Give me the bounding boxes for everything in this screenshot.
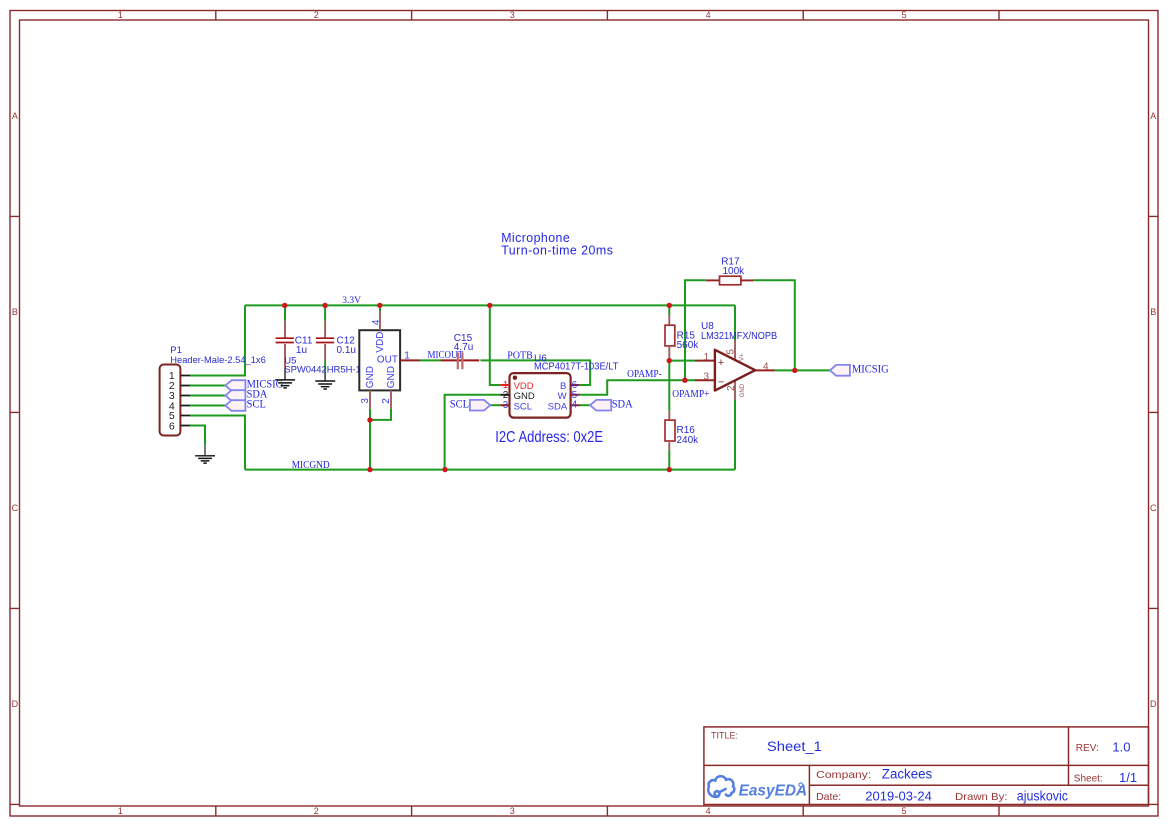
svg-text:TITLE:: TITLE:	[711, 730, 738, 740]
svg-text:1: 1	[118, 806, 123, 816]
net flag SCL at U6	[450, 396, 490, 410]
svg-text:I2C Address: 0x2E: I2C Address: 0x2E	[495, 429, 603, 446]
svg-text:B: B	[12, 307, 18, 317]
svg-text:Turn-on-time 20ms: Turn-on-time 20ms	[501, 243, 613, 257]
wire R15-R16 middle	[668, 361, 670, 411]
svg-text:MCP4017T-103E/LT: MCP4017T-103E/LT	[534, 362, 619, 373]
svg-text:3: 3	[360, 398, 371, 404]
svg-text:GND: GND	[365, 366, 376, 388]
resistor R17	[706, 257, 753, 285]
resistor R15	[665, 316, 699, 361]
wire U8 output to MICSIG	[775, 369, 831, 371]
svg-text:SCL: SCL	[514, 401, 532, 412]
wire R17 left leg	[685, 280, 706, 380]
svg-text:0.1u: 0.1u	[337, 345, 356, 356]
svg-text:Date:: Date:	[816, 791, 841, 803]
svg-text:OPAMP-: OPAMP-	[627, 369, 662, 380]
svg-text:2: 2	[381, 398, 392, 404]
wire MICGND rail	[245, 469, 735, 471]
svg-text:SCL: SCL	[247, 397, 266, 411]
svg-text:SDA: SDA	[548, 401, 568, 412]
svg-text:OUT: OUT	[377, 355, 398, 366]
digital pot U6	[500, 353, 618, 417]
svg-text:2: 2	[314, 806, 319, 816]
net flag MICSIG at P1	[225, 376, 283, 390]
wire SCL flag to U6	[490, 404, 500, 406]
svg-text:1u: 1u	[296, 345, 307, 356]
capacitor C15	[441, 333, 480, 369]
svg-text:−: −	[718, 376, 724, 388]
junction dots	[282, 303, 798, 473]
svg-text:V+: V+	[740, 353, 746, 361]
wire U6 GND to MICGND	[445, 395, 501, 470]
svg-text:100k: 100k	[723, 266, 746, 277]
svg-text:C: C	[12, 503, 19, 513]
svg-text:560k: 560k	[677, 340, 700, 351]
svg-text:Header-Male-2.54_1x6: Header-Male-2.54_1x6	[170, 355, 265, 366]
svg-text:VDD: VDD	[375, 332, 386, 353]
svg-text:A: A	[12, 111, 18, 121]
resistor R16	[665, 411, 699, 450]
svg-text:4: 4	[572, 400, 578, 411]
svg-text:1: 1	[703, 352, 709, 363]
svg-text:B: B	[1150, 307, 1156, 317]
net flag MICSIG output	[830, 364, 889, 376]
svg-text:EasyEDA: EasyEDA	[739, 783, 808, 800]
wire U5 GND pin3 down	[369, 409, 371, 470]
svg-text:ajuskovic: ajuskovic	[1017, 789, 1068, 804]
svg-text:3: 3	[503, 400, 509, 411]
svg-text:+: +	[718, 357, 724, 369]
svg-text:SCL: SCL	[450, 396, 469, 410]
svg-text:240k: 240k	[677, 435, 700, 446]
wire P1 pin4	[190, 405, 225, 407]
svg-text:MICSIG: MICSIG	[852, 364, 889, 376]
wire C12 top	[324, 305, 326, 320]
ground symbol at C12	[315, 371, 335, 389]
svg-text:MICGND: MICGND	[292, 460, 330, 471]
svg-text:REV:: REV:	[1076, 743, 1099, 754]
note text Microphone	[501, 231, 613, 257]
net flag SDA at P1	[225, 387, 267, 401]
svg-text:SDA: SDA	[612, 397, 633, 411]
EasyEDA logo	[708, 776, 734, 797]
wire R17 right leg	[753, 280, 795, 370]
svg-text:A: A	[1150, 111, 1156, 121]
svg-text:4: 4	[706, 806, 711, 816]
wire U6 SDA to flag	[580, 404, 590, 406]
svg-text:4: 4	[371, 319, 382, 325]
svg-text:2: 2	[726, 385, 737, 391]
svg-text:SPW0442HR5H-1: SPW0442HR5H-1	[284, 364, 361, 375]
wire U8 V+ drop	[734, 305, 736, 340]
capacitor C11	[276, 321, 313, 369]
svg-text:C: C	[1150, 503, 1157, 513]
wire P1 pin3	[190, 395, 225, 397]
svg-text:Zackees: Zackees	[882, 767, 933, 782]
svg-text:OPAMP+: OPAMP+	[672, 389, 710, 400]
svg-text:Sheet:: Sheet:	[1074, 774, 1103, 785]
net flag SCL at P1	[225, 397, 266, 411]
svg-text:5: 5	[726, 349, 737, 355]
svg-text:5: 5	[901, 10, 906, 20]
wire P1 pin2	[190, 385, 225, 387]
svg-text:3: 3	[510, 10, 515, 20]
connector P1	[160, 345, 266, 436]
wire 3.3V rail	[245, 304, 735, 306]
ground symbol at C11	[275, 369, 295, 388]
svg-text:2: 2	[314, 10, 319, 20]
svg-text:LM321MFX/NOPB: LM321MFX/NOPB	[701, 331, 777, 342]
svg-text:4: 4	[706, 10, 711, 20]
wire U6 VDD from rail	[490, 305, 501, 385]
svg-text:D: D	[1150, 699, 1157, 709]
svg-text:Company:: Company:	[816, 769, 871, 781]
wire R16 bottom	[668, 450, 670, 470]
svg-text:Drawn By:: Drawn By:	[955, 791, 1008, 803]
wire P1 pin6 to ground	[190, 426, 205, 445]
op-amp U8	[695, 321, 777, 400]
svg-text:4.7u: 4.7u	[454, 342, 473, 353]
svg-text:5: 5	[901, 806, 906, 816]
wire POTB to U6 pin6	[480, 360, 590, 385]
ground symbol at P1 pin6	[195, 445, 215, 463]
net flag SDA at U6	[590, 397, 633, 411]
svg-text:GND: GND	[386, 366, 397, 388]
svg-text:3: 3	[703, 372, 709, 383]
svg-text:2: 2	[503, 390, 509, 401]
svg-text:6: 6	[169, 420, 175, 432]
wire left vertical to P1 pin1	[190, 305, 245, 375]
svg-text:1.0: 1.0	[1112, 740, 1130, 755]
wire P1 pin5 to MICGND	[190, 416, 245, 470]
svg-text:3: 3	[510, 806, 515, 816]
wire C11 top	[284, 305, 286, 320]
svg-text:Sheet_1: Sheet_1	[767, 739, 822, 754]
wire MICOUT	[420, 359, 441, 361]
svg-text:POTB: POTB	[507, 350, 533, 361]
microphone U5	[284, 311, 420, 409]
svg-text:D: D	[12, 699, 19, 709]
svg-text:4: 4	[763, 362, 769, 373]
wire R15 top stub	[668, 305, 670, 315]
wire U8 pin2 to MICGND	[734, 400, 736, 470]
capacitor C12	[316, 321, 356, 372]
wire U6 W to OPAMP-	[580, 380, 695, 395]
wire U5 VDD stub	[379, 305, 381, 311]
svg-text:1: 1	[404, 350, 410, 361]
svg-text:1/1: 1/1	[1119, 770, 1137, 785]
svg-text:2019-03-24: 2019-03-24	[865, 789, 932, 804]
title block	[704, 727, 1149, 805]
wire U5 GND pin2 link	[370, 409, 391, 420]
svg-text:3.3V: 3.3V	[342, 296, 361, 306]
svg-text:1: 1	[118, 10, 123, 20]
wire OPAMP+ to U8 pin1	[669, 360, 695, 362]
svg-text:GND: GND	[740, 383, 746, 397]
